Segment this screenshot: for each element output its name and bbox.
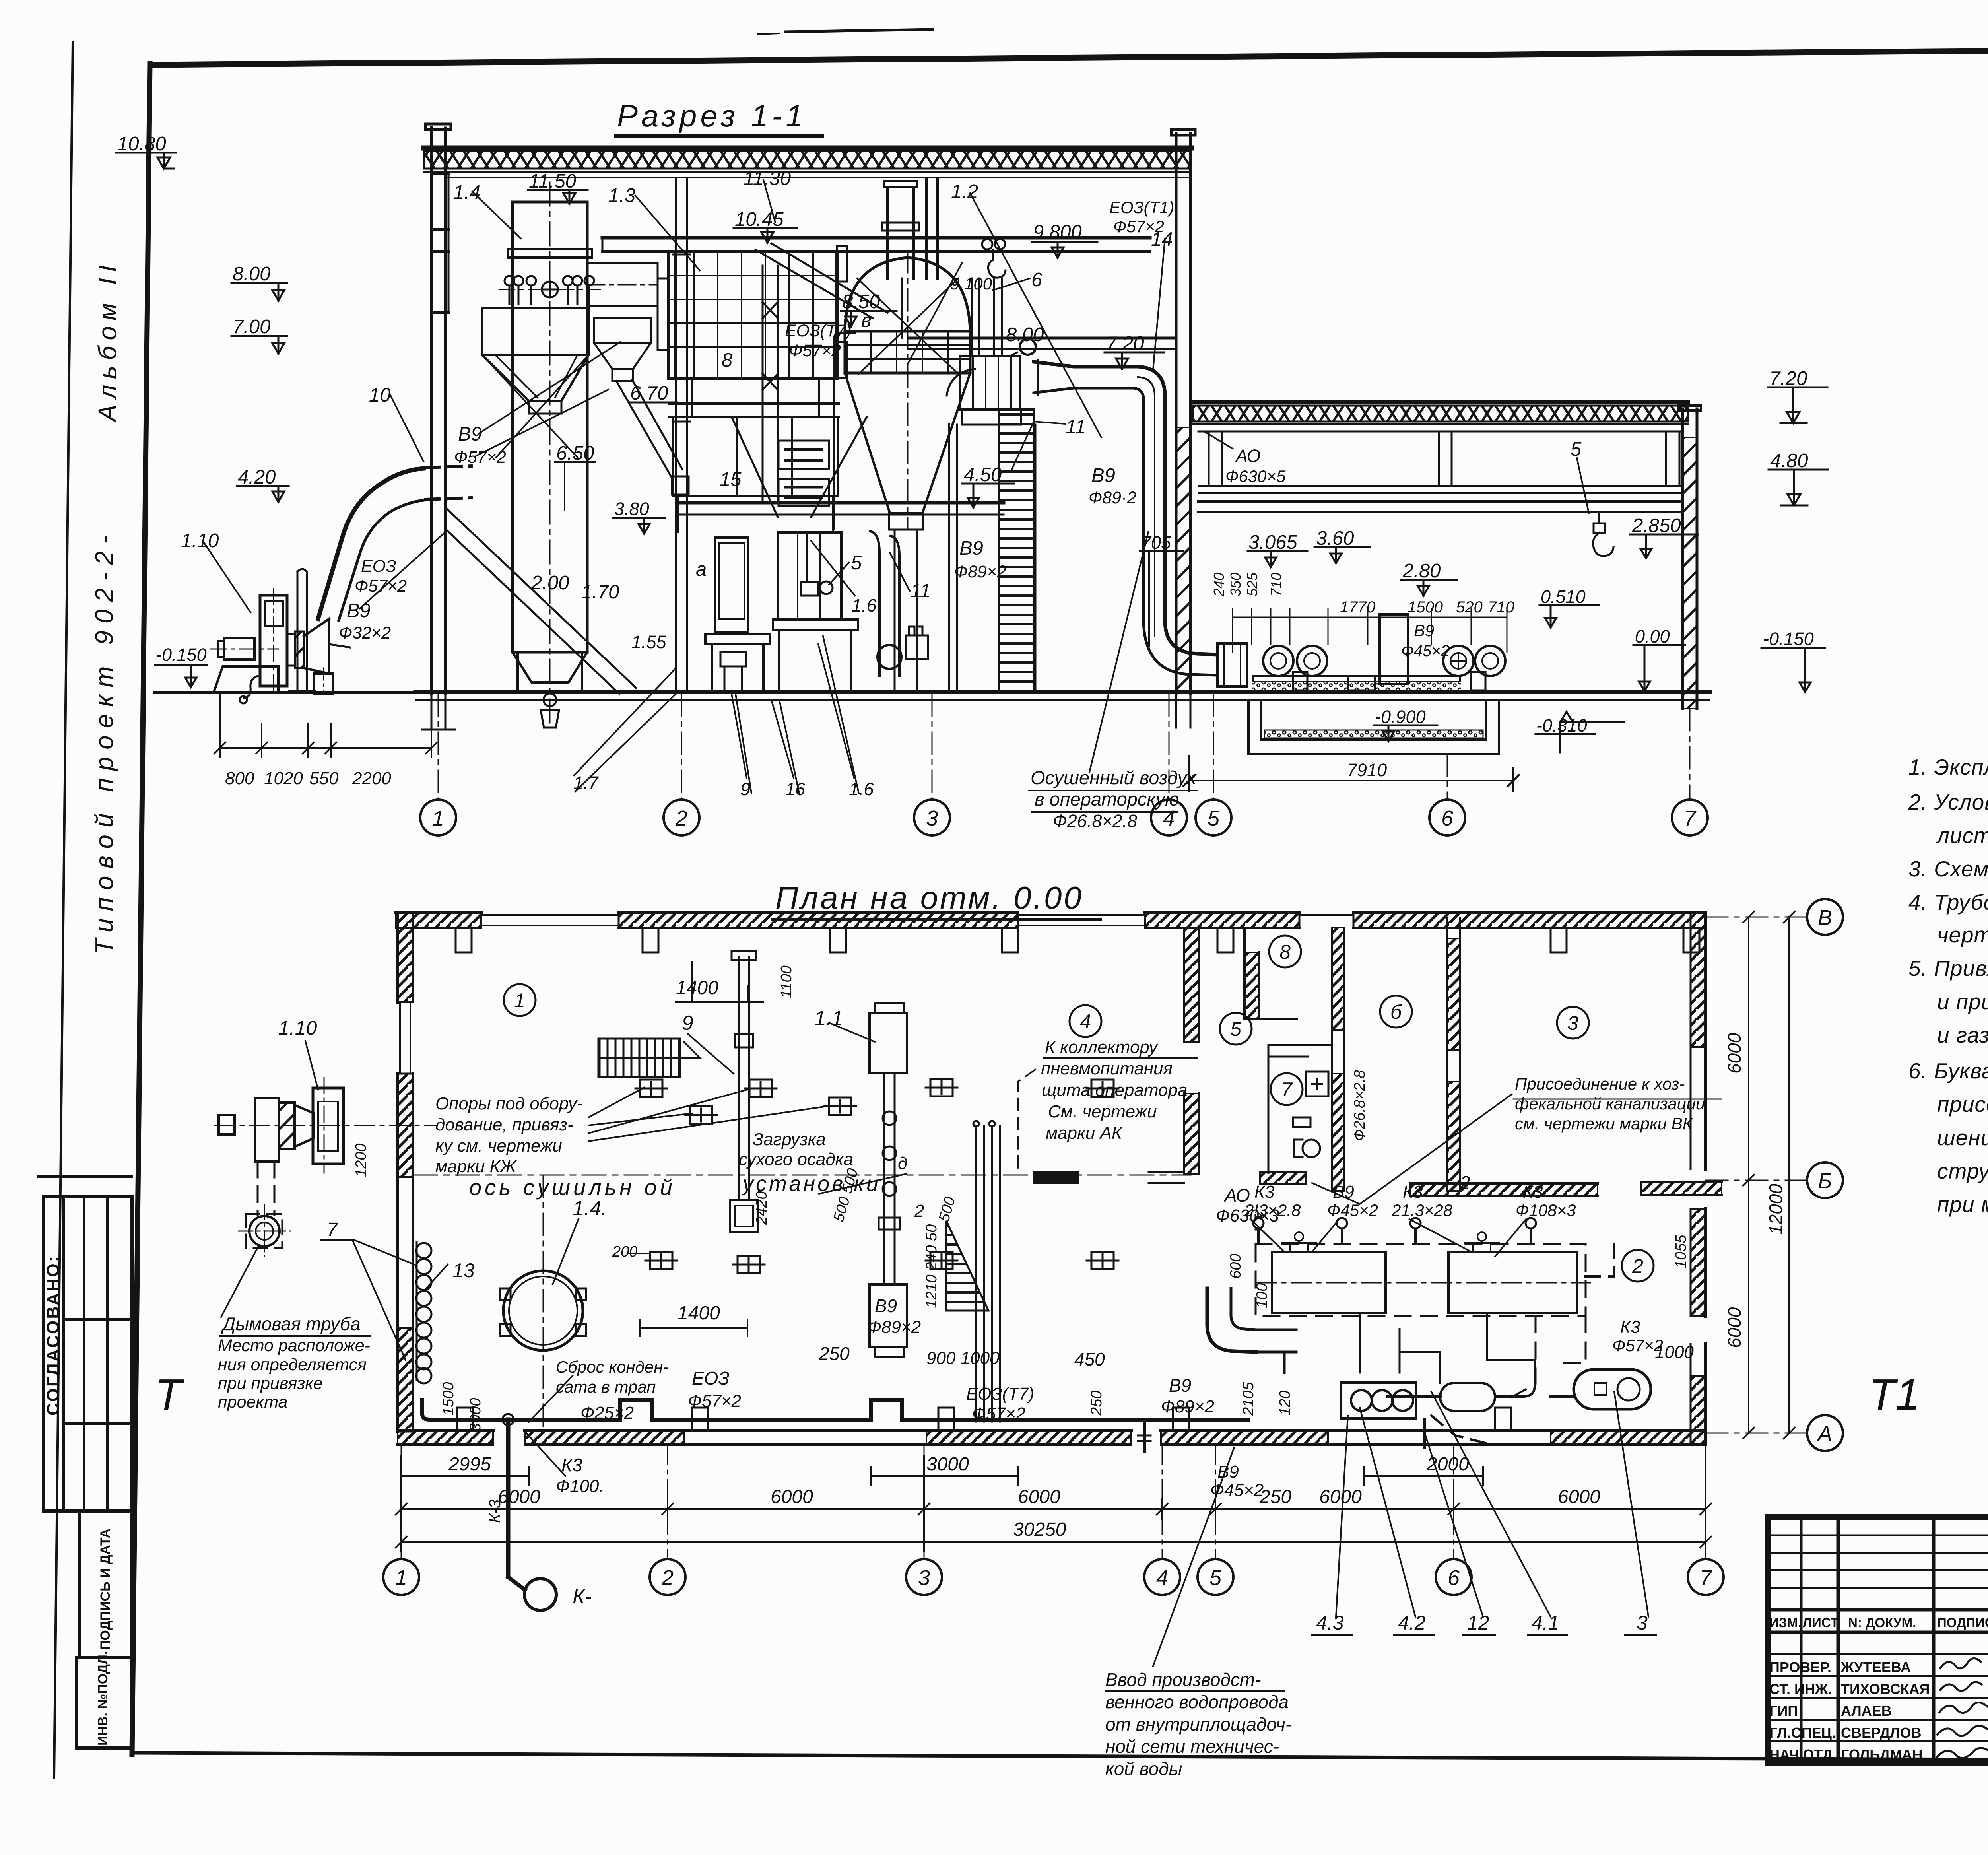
svg-text:СТ. ИНЖ.: СТ. ИНЖ. [1769, 1681, 1832, 1697]
soglasovano grid [38, 1175, 131, 1178]
svg-text:0.00: 0.00 [1635, 626, 1670, 647]
interior wall B (x~3640) [1447, 919, 1460, 1191]
receiver tank pill [1574, 1369, 1651, 1409]
dim 7910 [1183, 756, 1519, 791]
svg-text:30250: 30250 [1013, 1519, 1066, 1540]
small vertical dims near pump inlet [1211, 572, 1514, 660]
unit 1.1 vertical assembly [870, 1003, 907, 1357]
svg-text:Ф57×2: Ф57×2 [789, 341, 841, 360]
svg-text:6000: 6000 [498, 1486, 540, 1507]
pump 1.10 in plan [215, 1078, 437, 1173]
svg-text:550: 550 [309, 769, 339, 788]
bottom exterior wall [398, 1408, 1706, 1445]
svg-text:1.6: 1.6 [852, 595, 877, 616]
leader lines to below-floor labels [575, 278, 1030, 793]
big duct elbow into room 2 [1207, 1288, 1296, 1352]
svg-text:НАЧ.ОТД.: НАЧ.ОТД. [1769, 1746, 1837, 1763]
drying unit circle 1.4 [500, 1175, 586, 1428]
thick pipe drop symbol details [503, 1414, 514, 1425]
svg-text:Ф89·2: Ф89·2 [1089, 488, 1136, 507]
room number bubbles [504, 936, 1654, 1282]
svg-text:1.4: 1.4 [453, 182, 480, 203]
right exterior wall [1691, 913, 1706, 1445]
svg-text:120: 120 [1277, 1391, 1293, 1416]
interior horizontal wall (y~2952) [1035, 1172, 1722, 1196]
tall building roof slab hatched [424, 146, 1191, 151]
svg-text:Ф57×2: Ф57×2 [972, 1404, 1025, 1424]
svg-text:2105: 2105 [1240, 1382, 1257, 1416]
svg-text:ной сети техничес-: ной сети техничес- [1105, 1736, 1279, 1757]
svg-text:Разрез 1-1: Разрез 1-1 [617, 98, 807, 133]
svg-text:Сброс конден-: Сброс конден- [556, 1358, 668, 1376]
central posts and ties [692, 266, 902, 502]
svg-text:Ф89×2: Ф89×2 [954, 562, 1006, 581]
svg-text:проекта: проекта [218, 1393, 287, 1412]
svg-text:1400: 1400 [676, 977, 718, 998]
svg-text:фекальной канализации: фекальной канализации [1515, 1094, 1705, 1113]
svg-text:См. чертежи: См. чертежи [1048, 1102, 1157, 1121]
svg-text:3000: 3000 [926, 1454, 969, 1475]
svg-text:10.45: 10.45 [735, 209, 784, 230]
svg-text:Ф89×2: Ф89×2 [868, 1317, 921, 1337]
fan unit [947, 339, 1036, 425]
svg-text:250: 250 [819, 1343, 850, 1364]
svg-text:8: 8 [722, 350, 732, 371]
duct tower to 1.3 [587, 263, 658, 306]
svg-text:5: 5 [851, 552, 862, 574]
interior wall A (x~3350) [1332, 928, 1344, 1191]
misc small dims in plan [353, 965, 1689, 1432]
svg-text:5: 5 [1571, 439, 1582, 460]
svg-text:5: 5 [1208, 806, 1220, 830]
svg-text:1500: 1500 [1408, 598, 1443, 616]
pier stubs up [457, 1408, 473, 1430]
dim line under pump [214, 694, 437, 758]
svg-text:3.065: 3.065 [1248, 532, 1297, 553]
sheet inner frame top border [151, 47, 1988, 65]
svg-text:венного водопровода: венного водопровода [1105, 1692, 1289, 1712]
svg-text:7910: 7910 [1347, 760, 1387, 780]
sheet inner frame left border [132, 64, 150, 1754]
left part horizontals [1768, 1535, 1988, 1536]
tower bottom valve [544, 693, 556, 706]
svg-text:СОГЛАСОВАНО:: СОГЛАСОВАНО: [43, 1255, 63, 1416]
svg-text:2: 2 [1460, 1172, 1470, 1193]
svg-text:1200: 1200 [353, 1143, 369, 1177]
svg-text:2!3×2.8: 2!3×2.8 [1244, 1201, 1301, 1220]
svg-text:2: 2 [661, 1566, 674, 1590]
svg-text:ТИХОВСКАЯ: ТИХОВСКАЯ [1841, 1681, 1930, 1697]
svg-text:11: 11 [1066, 416, 1086, 438]
tambour walls room 8 [1244, 928, 1297, 1019]
svg-text:Ф45×2: Ф45×2 [1210, 1480, 1264, 1500]
svg-text:присоединения трубопроводов: присоединения трубопроводов пожароту- [1937, 1092, 1988, 1117]
valve hydrant symbols on dashed line [1253, 1217, 1536, 1230]
svg-text:2: 2 [1632, 1255, 1643, 1277]
svg-text:6000: 6000 [1558, 1486, 1600, 1507]
label 7 with leaders [320, 1239, 354, 1241]
svg-text:525: 525 [1244, 572, 1260, 596]
svg-text:4.1: 4.1 [1532, 1612, 1559, 1634]
svg-text:1.70: 1.70 [581, 581, 619, 603]
svg-text:и привязку опор и подвесок: и привязку опор и подвесок под воздухово… [1937, 989, 1988, 1014]
svg-text:15: 15 [720, 469, 742, 490]
svg-text:ИЗМ.: ИЗМ. [1769, 1615, 1802, 1630]
svg-text:3.60: 3.60 [1316, 528, 1354, 549]
svg-text:350: 350 [1227, 573, 1244, 596]
svg-text:10.80: 10.80 [117, 133, 166, 155]
blower boxes [1256, 1232, 1590, 1313]
tower centerline [549, 182, 551, 728]
svg-text:1.10: 1.10 [278, 1017, 317, 1039]
svg-text:1.6: 1.6 [849, 779, 874, 799]
stack above dryer [882, 181, 919, 278]
vvod leader [1153, 1447, 1234, 1666]
svg-text:2: 2 [914, 1201, 924, 1221]
svg-text:СВЕРДЛОВ: СВЕРДЛОВ [1841, 1725, 1922, 1741]
svg-text:7.20: 7.20 [1106, 333, 1144, 354]
svg-text:АЛАЕВ: АЛАЕВ [1841, 1703, 1892, 1719]
svg-text:чертежи марки ГВ.: чертежи марки ГВ. [1937, 923, 1988, 947]
axis lines down to bubbles [438, 694, 1690, 799]
svg-text:Ф45×2: Ф45×2 [1327, 1201, 1378, 1220]
svg-text:800: 800 [225, 769, 254, 788]
svg-text:ГОЛЬДМАН: ГОЛЬДМАН [1841, 1746, 1922, 1763]
svg-text:при монтаже оборудования.: при монтаже оборудования. [1937, 1192, 1988, 1217]
svg-text:Ф108×3: Ф108×3 [1516, 1201, 1576, 1220]
svg-text:6: 6 [1441, 806, 1454, 830]
svg-text:ПРОВЕР.: ПРОВЕР. [1769, 1659, 1831, 1675]
svg-text:В9: В9 [875, 1296, 897, 1316]
hook trolley on crane beam left [982, 239, 1006, 278]
svg-text:Т1: Т1 [1869, 1370, 1920, 1419]
cyclone bunker [482, 308, 689, 495]
svg-text:лист КГ-3.: лист КГ-3. [1936, 823, 1988, 848]
svg-text:21.3×28: 21.3×28 [1391, 1201, 1453, 1220]
svg-text:Присоединение к хоз-: Присоединение к хоз- [1515, 1074, 1685, 1093]
svg-text:6.70: 6.70 [630, 383, 668, 404]
svg-text:марки КЖ: марки КЖ [435, 1157, 517, 1176]
svg-text:N: ДОКУМ.: N: ДОКУМ. [1848, 1615, 1916, 1630]
pit [1236, 700, 1499, 754]
svg-text:ПОДПИСЬ И ДАТА: ПОДПИСЬ И ДАТА [98, 1529, 113, 1650]
svg-text:К3: К3 [1403, 1182, 1423, 1202]
loading conveyor 9 (vertical line pair with box) [730, 951, 758, 1232]
duct inner line [1138, 377, 1155, 636]
svg-text:13: 13 [452, 1259, 475, 1282]
svg-text:Ф89×2: Ф89×2 [1161, 1397, 1214, 1416]
left building foundation below floor [422, 694, 1190, 730]
svg-text:1.4.: 1.4. [573, 1197, 607, 1220]
plan texts [218, 977, 1705, 1779]
svg-text:1100: 1100 [778, 965, 795, 998]
burner boxes with bolts [779, 441, 829, 506]
svg-text:1000: 1000 [1655, 1342, 1694, 1362]
unit 16 box [773, 532, 858, 691]
svg-text:В9: В9 [458, 423, 482, 445]
svg-text:2. Условные обозначения тру: 2. Условные обозначения трубопроводов см… [1908, 790, 1988, 814]
svg-text:1. Экспликацию оборудования: 1. Экспликацию оборудования см. лист КГ-… [1908, 755, 1988, 779]
svg-text:3000: 3000 [467, 1398, 484, 1432]
svg-text:450: 450 [1074, 1349, 1105, 1369]
low building window band [1198, 431, 1683, 512]
svg-text:сухого осадка: сухого осадка [739, 1150, 853, 1169]
pumps on pit slab [1253, 614, 1505, 690]
svg-text:Типовой проект 902-2-: Типовой проект 902-2- [90, 528, 118, 954]
svg-text:3: 3 [1567, 1012, 1578, 1034]
svg-text:100: 100 [1254, 1283, 1270, 1308]
svg-text:8: 8 [1279, 941, 1291, 963]
svg-text:К-3: К-3 [486, 1500, 504, 1523]
pump inlet box low building [1217, 643, 1247, 686]
svg-text:Ф100.: Ф100. [556, 1476, 604, 1496]
heat exchanger pill [1415, 1383, 1495, 1411]
svg-text:250: 250 [1088, 1391, 1105, 1416]
svg-text:К3: К3 [1620, 1317, 1640, 1337]
svg-text:7: 7 [1281, 1078, 1293, 1101]
svg-text:-0.150: -0.150 [156, 645, 207, 665]
svg-text:Ф45×2: Ф45×2 [1401, 642, 1450, 660]
underline leaders bottom labels [219, 1023, 1722, 1691]
stray dash top middle [785, 29, 932, 32]
svg-text:2: 2 [675, 806, 687, 830]
left part verticals [1800, 1517, 1803, 1763]
second bunker right of tower [594, 318, 651, 343]
svg-text:б: б [1390, 1001, 1402, 1023]
interior wall C (x~2978, operator room) [1184, 928, 1199, 1174]
svg-text:1020: 1020 [264, 769, 303, 788]
svg-text:3: 3 [918, 1566, 930, 1590]
tower nozzles row [499, 276, 600, 304]
svg-text:струями. Привязка точек уто: струями. Привязка точек уточняется [1937, 1159, 1988, 1183]
svg-text:0.510: 0.510 [1541, 587, 1586, 607]
svg-text:1400: 1400 [678, 1303, 720, 1324]
podpis box [80, 1511, 132, 1657]
svg-text:6: 6 [1031, 269, 1043, 291]
svg-text:Ф25×2: Ф25×2 [580, 1403, 634, 1423]
svg-text:Загрузка: Загрузка [753, 1130, 826, 1149]
platform 4.50 level [678, 501, 1004, 505]
thin pipe E03(T7) [834, 333, 855, 529]
dryer 1.2 [845, 251, 970, 691]
svg-text:8.00: 8.00 [1006, 324, 1044, 346]
small pipe E03 near pump [244, 676, 258, 698]
interior column axis 3 [925, 178, 928, 278]
svg-text:Альбом II: Альбом II [93, 260, 122, 423]
svg-text:Ф630×5: Ф630×5 [1225, 467, 1286, 486]
svg-text:ЖУТЕЕВА: ЖУТЕЕВА [1840, 1659, 1911, 1675]
svg-text:6000: 6000 [771, 1486, 813, 1507]
svg-text:Б: Б [1818, 1169, 1832, 1193]
lower room cabinets: unit a [705, 538, 770, 692]
svg-text:ния определяется: ния определяется [218, 1355, 367, 1374]
svg-text:900 1000: 900 1000 [926, 1348, 1000, 1368]
svg-text:7: 7 [1700, 1566, 1712, 1590]
svg-text:11: 11 [911, 580, 931, 602]
svg-text:7.20: 7.20 [1769, 368, 1807, 389]
dividing wall (tall/low) [1175, 133, 1178, 694]
svg-text:2995: 2995 [448, 1454, 491, 1475]
svg-text:1.55: 1.55 [631, 632, 667, 652]
svg-text:К3: К3 [561, 1455, 582, 1475]
svg-text:2.850: 2.850 [1632, 515, 1681, 536]
svg-text:от внутриплощадоч-: от внутриплощадоч- [1105, 1714, 1291, 1735]
svg-text:шения к установке со встре: шения к установке со встречными [1937, 1125, 1988, 1150]
svg-text:-0.900: -0.900 [1375, 707, 1426, 727]
svg-text:6. Буквами а , б , в , г ,: 6. Буквами а , б , в , г , д обозначены … [1908, 1059, 1988, 1083]
svg-text:Место расположе-: Место расположе- [218, 1336, 370, 1355]
ladder (pos 11) [999, 410, 1035, 691]
leader and underline for dried air note [1029, 790, 1198, 791]
left exterior wall [398, 913, 413, 1432]
svg-text:Ф57×2: Ф57×2 [688, 1391, 741, 1411]
small motor on stand [801, 582, 818, 596]
stamp rows left labels [1769, 1615, 1988, 1763]
svg-text:1210 240 50: 1210 240 50 [923, 1224, 940, 1308]
svg-text:8.50: 8.50 [842, 291, 880, 313]
svg-text:600: 600 [1227, 1254, 1244, 1279]
svg-text:ГИП: ГИП [1769, 1703, 1798, 1719]
svg-text:ЕОЗ(Т1): ЕОЗ(Т1) [1109, 198, 1174, 217]
svg-text:1: 1 [395, 1566, 407, 1590]
svg-text:и газоход см. чертежи марк: и газоход см. чертежи марки КЖ. [1937, 1023, 1988, 1047]
pit floor dotted band over slab [1252, 682, 1461, 691]
stairs middle [946, 1221, 988, 1311]
window pier stubs [456, 928, 472, 952]
svg-text:В9: В9 [959, 538, 983, 559]
svg-text:8.00: 8.00 [233, 263, 270, 285]
svg-text:5: 5 [1209, 1566, 1222, 1590]
svg-text:2420: 2420 [753, 1191, 770, 1225]
heater coil 13 [416, 1242, 431, 1383]
wall pilaster ties [431, 172, 448, 175]
dim ticks above pumps [1233, 608, 1507, 652]
E03 riser pipe near axis-1 wall [289, 569, 316, 691]
diagonals chute to dryer [755, 243, 887, 318]
interior column axis 2 [675, 178, 677, 692]
svg-text:11.50: 11.50 [529, 171, 576, 192]
thin window sill lines across gaps [481, 914, 619, 916]
svg-text:6000: 6000 [1018, 1486, 1060, 1507]
svg-text:9: 9 [682, 1012, 693, 1035]
svg-text:1.7: 1.7 [573, 773, 599, 793]
svg-text:1055: 1055 [1673, 1235, 1689, 1268]
vertical pump body [260, 595, 287, 686]
svg-text:6000: 6000 [1724, 1033, 1745, 1074]
svg-text:250: 250 [1259, 1486, 1291, 1507]
svg-text:1.3: 1.3 [608, 185, 635, 206]
svg-text:ЕОЗ: ЕОЗ [692, 1368, 730, 1389]
svg-text:4.20: 4.20 [238, 466, 276, 488]
motor [224, 638, 254, 660]
svg-text:6000: 6000 [1724, 1307, 1745, 1348]
svg-text:710: 710 [1488, 598, 1514, 616]
svg-text:2.00: 2.00 [531, 572, 569, 594]
chimney marker with dashed box [239, 1162, 290, 1257]
duct dashes through wall [425, 466, 471, 468]
heat exchanger 1.3 grid [658, 246, 847, 378]
sanuzel room 7 walls and fixtures [1268, 1045, 1331, 1173]
svg-text:12: 12 [1467, 1612, 1489, 1634]
svg-text:1: 1 [432, 806, 444, 830]
svg-text:4.80: 4.80 [1770, 450, 1808, 472]
svg-text:д: д [898, 1154, 907, 1173]
svg-text:в операторскую: в операторскую [1035, 789, 1179, 810]
pipe bundle risers [973, 1121, 1000, 1422]
coupling flanges hatched [287, 634, 295, 666]
svg-text:3. Схемы трубопроводов см.: 3. Схемы трубопроводов см. лист КГ-7. [1908, 857, 1988, 881]
svg-text:7: 7 [1684, 806, 1697, 830]
svg-text:3: 3 [926, 806, 938, 830]
pumps trio [1341, 1383, 1416, 1418]
svg-text:щита оператора: щита оператора [1042, 1080, 1187, 1100]
floor line [415, 690, 1710, 694]
svg-text:Дымовая труба: Дымовая труба [221, 1313, 361, 1334]
left sheet edge line [54, 42, 73, 1777]
svg-text:9: 9 [740, 779, 750, 799]
svg-text:пневмопитания: пневмопитания [1041, 1059, 1173, 1078]
svg-text:Ф32×2: Ф32×2 [339, 624, 391, 643]
svg-text:В: В [1818, 906, 1832, 930]
svg-text:В9: В9 [1091, 465, 1115, 486]
svg-text:1500: 1500 [440, 1382, 457, 1416]
svg-text:ЕОЗ: ЕОЗ [361, 557, 396, 576]
svg-text:9.800: 9.800 [1033, 221, 1082, 243]
svg-text:К коллектору: К коллектору [1045, 1037, 1159, 1057]
stairs top left [598, 1039, 700, 1077]
conveyor incline to tower (from cyclone) [445, 507, 636, 694]
svg-text:ГЛ.СПЕЦ.: ГЛ.СПЕЦ. [1769, 1725, 1836, 1741]
svg-text:В9: В9 [1217, 1462, 1239, 1482]
svg-text:7.00: 7.00 [233, 316, 270, 338]
svg-text:2.80: 2.80 [1402, 560, 1441, 582]
discharge duct rising steeply [318, 468, 424, 619]
piping net room 2 [1284, 1313, 1574, 1447]
svg-text:Ввод производст-: Ввод производст- [1105, 1669, 1261, 1690]
tall building left wall [430, 128, 433, 694]
svg-text:200: 200 [612, 1243, 637, 1260]
dim ticks around 1400 over supports [628, 962, 763, 1336]
svg-text:3: 3 [1637, 1612, 1648, 1634]
svg-text:1770: 1770 [1340, 598, 1375, 616]
svg-text:ЕОЗ(Т7): ЕОЗ(Т7) [785, 321, 851, 340]
crane beam (10.45 level) [602, 236, 1150, 240]
svg-text:3.80: 3.80 [614, 499, 649, 519]
main thick pipes along bottom [422, 1400, 1248, 1563]
svg-text:240: 240 [1211, 573, 1227, 597]
svg-text:сата в трап: сата в трап [556, 1377, 656, 1396]
axis stems to bubbles [401, 1445, 1706, 1559]
svg-text:А: А [1817, 1422, 1832, 1446]
svg-text:В9: В9 [347, 600, 371, 622]
K3 drain line to K- [506, 1563, 511, 1577]
funnel below (to burner) [732, 417, 867, 517]
svg-text:4.3: 4.3 [1316, 1612, 1344, 1634]
svg-text:ось сушильн ой: ось сушильн ой [469, 1175, 676, 1200]
svg-text:2200: 2200 [352, 769, 391, 788]
svg-text:Осушенный воздух: Осушенный воздух [1031, 767, 1197, 788]
low building right wall [1679, 406, 1701, 709]
svg-text:4.2: 4.2 [1398, 1612, 1426, 1634]
svg-text:16: 16 [785, 779, 806, 799]
svg-text:К3: К3 [1523, 1182, 1543, 1202]
svg-text:6.50: 6.50 [556, 443, 594, 464]
signatures squiggles [1937, 1658, 1988, 1758]
svg-text:520: 520 [1456, 598, 1483, 616]
svg-text:500: 500 [936, 1195, 959, 1224]
transition cone [304, 619, 329, 674]
support pads [635, 1079, 1118, 1273]
